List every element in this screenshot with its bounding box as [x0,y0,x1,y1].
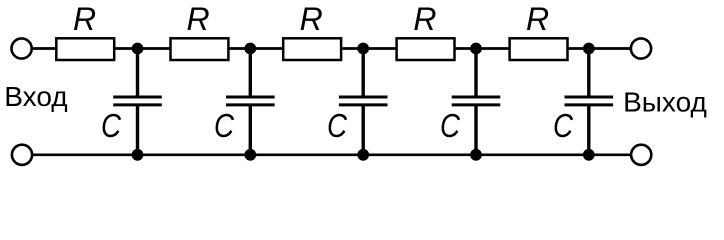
capacitor C5 [565,49,614,155]
svg-text:R: R [73,1,96,37]
capacitor C4 [452,49,501,155]
svg-text:R: R [187,1,210,37]
svg-text:Вход: Вход [4,81,67,112]
terminal: input bottom [12,145,32,165]
wire: top rail, input terminal to R1 [32,47,57,50]
svg-text:R: R [300,1,323,37]
resistor R5 [510,38,568,60]
junction node 3 bottom [357,149,369,161]
junction node 4 bottom [470,149,482,161]
resistor R2 [171,38,229,60]
svg-text:Выход: Выход [623,87,707,118]
resistor R3 [283,38,341,60]
capacitor C3 [339,49,388,155]
junction node 1 bottom [132,149,144,161]
svg-text:C: C [214,107,235,144]
terminal: output bottom [631,145,651,165]
capacitor C1 [113,49,162,155]
wire: top rail, R3 to R4 (node 3) [341,47,398,50]
junction node 2 top [244,43,256,55]
resistor R1 [56,38,114,60]
terminal: output top [631,38,651,58]
capacitor C2 [226,49,275,155]
wire: top rail, R1 to R2 (node 1) [114,47,172,50]
wire: top rail, R2 to R3 (node 2) [228,47,284,50]
resistor R4 [397,38,455,60]
junction node 2 bottom [244,149,256,161]
junction node 5 top [583,43,595,55]
junction node 5 bottom [583,149,595,161]
svg-text:C: C [327,107,348,144]
svg-text:C: C [101,107,122,144]
svg-text:C: C [440,107,461,144]
svg-text:R: R [526,1,549,37]
junction node 1 top [132,43,144,55]
svg-text:C: C [553,107,574,144]
wire: top rail, R4 to R5 (node 4) [454,47,510,50]
terminal: input top [12,38,32,58]
wire: top rail, R5 to output terminal (node 5) [567,47,631,50]
junction node 3 top [357,43,369,55]
junction node 4 top [470,43,482,55]
wire: bottom rail (common return) [32,153,631,156]
svg-text:R: R [413,1,436,37]
